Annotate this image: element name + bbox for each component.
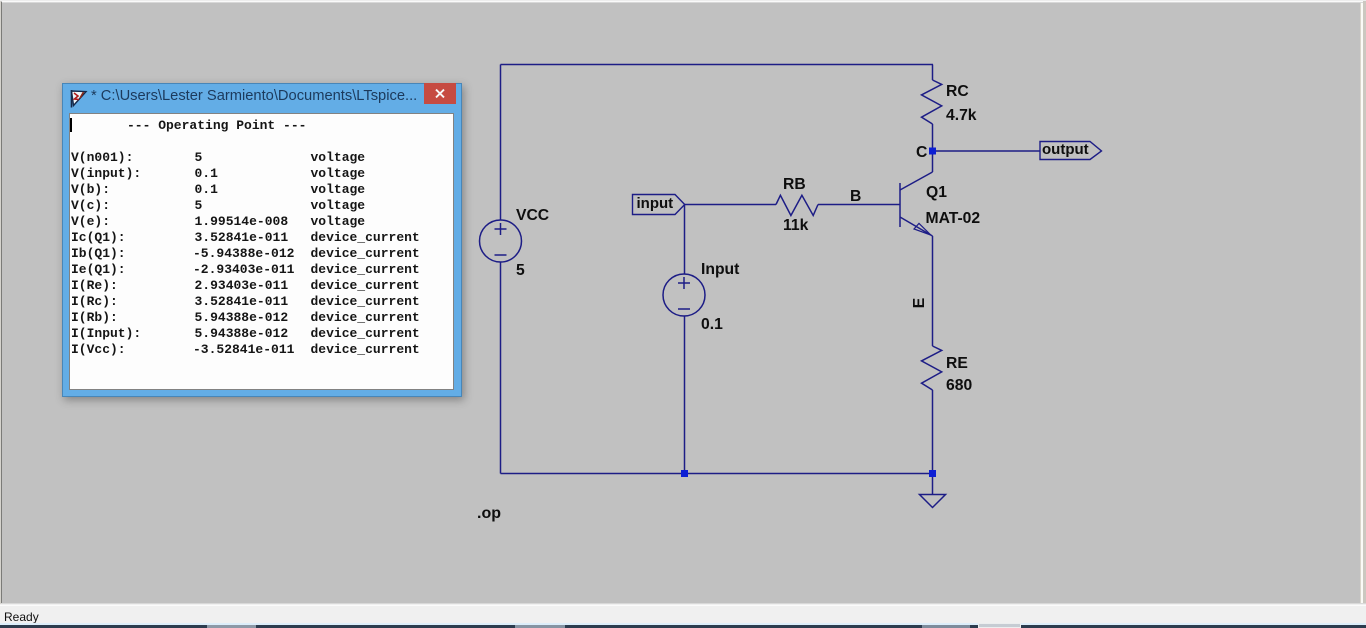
- label Q1: [926, 184, 947, 202]
- window edges: [0, 0, 1, 604]
- wire top rail: [501, 64, 934, 66]
- label 0.1: [701, 316, 723, 334]
- wire VCC bottom lead: [500, 262, 502, 474]
- node bottom-right junction: [929, 470, 936, 477]
- wire input source bottom lead: [684, 316, 686, 473]
- label RB: [783, 176, 806, 194]
- wire output: [936, 150, 1040, 152]
- ground: [920, 495, 946, 508]
- caret: [70, 118, 72, 132]
- label output (flag text): [1042, 141, 1089, 158]
- wire VCC top lead: [500, 65, 502, 221]
- wire to ground: [932, 474, 934, 495]
- status bar: [0, 603, 1366, 624]
- label B: [850, 188, 861, 206]
- resistor RE: [922, 346, 942, 390]
- close button: [424, 83, 456, 104]
- LTspice icon: [70, 89, 88, 108]
- dialog title: [91, 88, 431, 109]
- label RC: [946, 83, 969, 101]
- label C: [916, 144, 927, 162]
- label 4.7k: [946, 107, 977, 125]
- node C junction: [929, 148, 936, 155]
- voltage source Input: [663, 274, 705, 316]
- label Input: [701, 261, 739, 279]
- wire emitter to RE: [932, 236, 934, 346]
- label 5: [516, 262, 525, 280]
- voltage source VCC: [480, 220, 522, 262]
- taskbar strip: [0, 623, 1366, 625]
- wire RB to base: [818, 204, 900, 206]
- label input (flag text): [637, 195, 674, 212]
- flag input: [633, 195, 685, 215]
- label RE: [946, 355, 968, 373]
- node bottom-mid junction: [681, 470, 688, 477]
- wire collector top lead: [932, 65, 934, 81]
- dialog window: [62, 83, 462, 397]
- wire input to RB: [685, 204, 776, 206]
- flag output: [1040, 142, 1102, 160]
- wire bottom rail: [501, 473, 934, 475]
- resistor RB: [776, 195, 818, 215]
- label VCC: [516, 207, 549, 225]
- label MAT-02: [926, 210, 981, 228]
- wire input source top lead: [684, 205, 686, 275]
- label .op: [477, 505, 501, 523]
- label 680: [946, 377, 972, 395]
- wire RC to C node: [932, 124, 934, 172]
- label 11k: [783, 217, 808, 235]
- label E (rotated): [911, 298, 929, 308]
- dialog text body: [69, 113, 454, 390]
- wire RE to bottom rail: [932, 390, 934, 474]
- resistor RC: [922, 80, 942, 124]
- transistor Q1: [900, 172, 933, 236]
